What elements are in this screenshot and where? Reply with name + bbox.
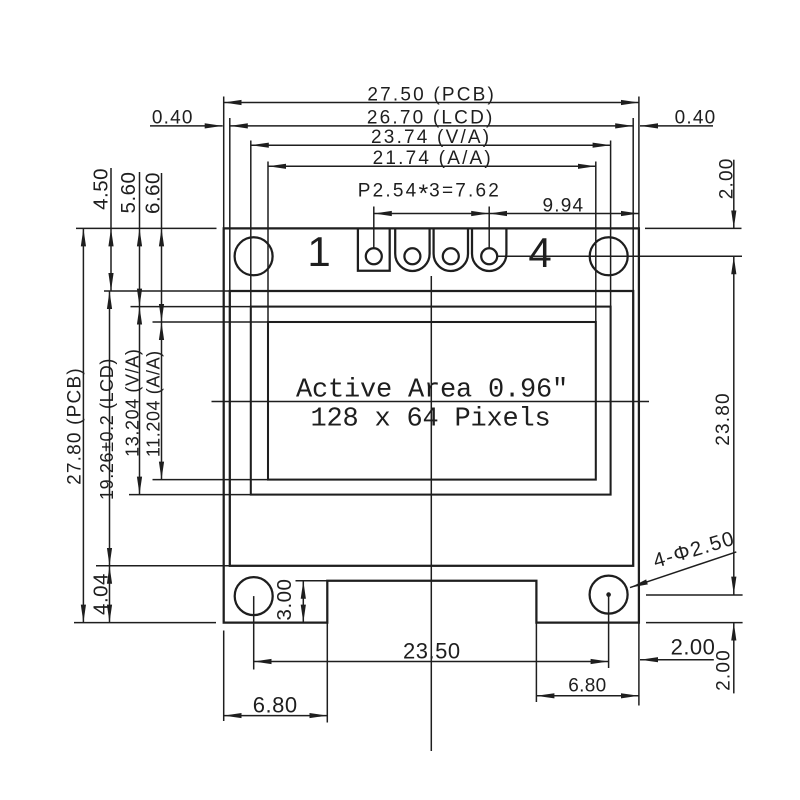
mounting hole top-right — [590, 237, 628, 275]
dim line 27.50 PCB — [224, 102, 639, 104]
A/A top edge extension — [153, 321, 269, 323]
svg-text:6.60: 6.60 — [141, 172, 164, 214]
svg-text:128 x 64 Pixels: 128 x 64 Pixels — [310, 405, 550, 435]
dim line 4.04 left — [109, 566, 111, 623]
svg-text:4.50: 4.50 — [90, 168, 113, 210]
mounting hole top-left — [235, 237, 273, 275]
svg-text:13.204 (V/A): 13.204 (V/A) — [123, 349, 143, 457]
pin pad 1 (square) — [358, 228, 390, 270]
bottom-left hole center extension — [253, 596, 255, 669]
LCD bottom edge extension — [96, 565, 230, 567]
svg-text:0.40: 0.40 — [675, 108, 717, 129]
pin4 center extension — [488, 207, 490, 249]
svg-text:23.50: 23.50 — [403, 639, 461, 664]
pin pad 2 (round) — [395, 228, 429, 271]
2.00 bottom-right vertical extension segment — [733, 623, 735, 694]
PCB bottom edge extension left — [74, 622, 216, 624]
6.60 dim line upper extension — [161, 173, 163, 228]
LCD glass outline — [230, 291, 633, 566]
dim line 11.204 A/A left — [161, 322, 163, 480]
pin row centerline — [498, 255, 743, 257]
PCB outline — [224, 228, 639, 622]
leader line 4-dia2.50 — [630, 552, 736, 588]
PCB top edge extension left — [76, 227, 217, 229]
A/A right edge extension — [595, 162, 597, 323]
svg-text:21.74 (A/A): 21.74 (A/A) — [373, 148, 493, 169]
svg-text:4: 4 — [528, 229, 551, 276]
LCD left edge extension — [229, 118, 231, 291]
svg-text:2.00: 2.00 — [713, 649, 734, 691]
svg-text:0.40: 0.40 — [152, 108, 194, 129]
notch left edge extension below — [326, 623, 328, 723]
V/A left edge extension — [250, 141, 252, 307]
5.60 dim line upper extension — [139, 172, 141, 228]
viewing area V/A outline — [251, 307, 611, 495]
A/A bottom edge extension — [153, 479, 269, 481]
PCB left edge extension above — [223, 97, 225, 229]
PCB right edge extension above — [638, 97, 640, 229]
dim line 21.74 A/A — [268, 165, 596, 167]
svg-text:6.80: 6.80 — [568, 676, 606, 697]
svg-text:23.80: 23.80 — [713, 392, 734, 446]
svg-text:5.60: 5.60 — [117, 172, 140, 214]
svg-text:4.04: 4.04 — [90, 573, 113, 615]
svg-text:Active Area 0.96″: Active Area 0.96″ — [296, 376, 568, 406]
active area A/A outline — [268, 322, 596, 480]
pin 3 hole — [443, 248, 459, 264]
dim line 0.40 left — [150, 125, 223, 127]
svg-text:P2.54*3=7.62: P2.54*3=7.62 — [358, 180, 501, 208]
svg-text:27.50 (PCB): 27.50 (PCB) — [367, 84, 496, 105]
dim line 7.62 pin pitch — [374, 213, 489, 215]
A/A left edge extension — [267, 162, 269, 323]
svg-text:19.26±0.2 (LCD): 19.26±0.2 (LCD) — [97, 358, 117, 500]
svg-text:26.70 (LCD): 26.70 (LCD) — [367, 108, 495, 129]
V/A bottom edge extension — [129, 494, 251, 496]
pin 4 hole — [481, 248, 497, 264]
bottom-right hole center extension — [608, 595, 610, 668]
dim line 4.50 — [110, 228, 112, 291]
dim line 3.00 notch — [302, 581, 304, 623]
LCD top edge extension — [104, 290, 230, 292]
pin pad 3 (round) — [434, 228, 468, 271]
dim line 23.50 — [254, 661, 609, 663]
pin 2 hole — [404, 248, 420, 264]
bottom hole centerline — [646, 594, 743, 596]
svg-text:2.00: 2.00 — [716, 158, 737, 200]
svg-text:9.94: 9.94 — [543, 196, 585, 217]
mounting hole bottom-left — [235, 577, 273, 615]
notch right edge extension below — [535, 623, 537, 702]
horizontal centerline — [212, 401, 650, 403]
PCB right edge extension below — [638, 623, 640, 706]
svg-text:27.80 (PCB): 27.80 (PCB) — [64, 367, 85, 485]
2.00 top-right extension segment — [733, 160, 735, 229]
dim line 6.80 left — [224, 715, 328, 717]
PCB bottom edge extension right — [646, 622, 743, 624]
V/A right edge extension — [610, 141, 612, 307]
dim line 19.26 LCD left — [109, 291, 111, 566]
pin1 center extension — [373, 207, 375, 249]
mounting hole bottom-right — [590, 576, 628, 614]
svg-text:11.204 (A/A): 11.204 (A/A) — [143, 350, 163, 457]
dim line 5.60 — [139, 228, 141, 306]
pin 1 hole — [366, 248, 382, 264]
dim line 23.74 V/A — [251, 144, 611, 146]
dim line 0.40 right — [640, 125, 713, 127]
dim line 27.80 PCB left — [82, 228, 84, 622]
svg-text:2.00: 2.00 — [671, 635, 716, 660]
vertical centerline — [430, 276, 432, 751]
notch top edge extension — [296, 580, 328, 582]
dim line 9.94 — [489, 213, 639, 215]
V/A top edge extension — [131, 306, 251, 308]
svg-text:3.00: 3.00 — [273, 579, 296, 621]
PCB left edge extension below — [223, 631, 225, 722]
svg-text:6.80: 6.80 — [253, 693, 298, 718]
4.50 dim line upper extension — [110, 168, 112, 228]
dim line 26.70 LCD — [230, 125, 633, 127]
PCB top edge extension right — [645, 227, 742, 229]
svg-text:23.74 (V/A): 23.74 (V/A) — [371, 127, 491, 148]
svg-text:1: 1 — [307, 228, 330, 275]
dim line 23.80 right — [733, 256, 735, 594]
dim line 6.60 — [161, 228, 163, 322]
dim line 2.00 bottom horizontal — [640, 659, 714, 661]
dim line 6.80 right — [536, 695, 639, 697]
dim line 13.204 V/A left — [139, 307, 141, 495]
hole center dot bottom-right — [606, 592, 611, 597]
LCD right edge extension — [632, 118, 634, 291]
pin pad 4 (round) — [472, 228, 506, 271]
